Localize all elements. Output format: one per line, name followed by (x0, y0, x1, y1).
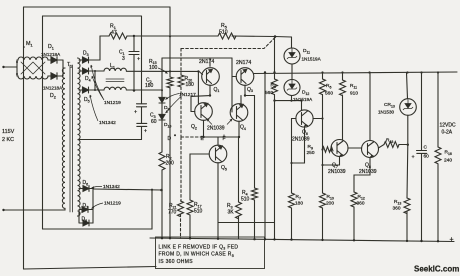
wire bottom outer rail (24, 267, 157, 270)
column D9 D10 R2 (161, 58, 163, 238)
wire Q8 collector up to rail (369, 72, 371, 140)
svg-text:IS 360 OHMS: IS 360 OHMS (159, 259, 194, 265)
transformer T1 secondary winding (78, 58, 81, 216)
wire R11 bottom to Q7 collector (342, 95, 344, 140)
wire Q8 right to R18 (378, 145, 384, 149)
svg-text:1N1519A: 1N1519A (293, 97, 313, 102)
svg-text:2N1039: 2N1039 (359, 169, 377, 175)
transistor Q8 2N1039 (362, 141, 379, 158)
svg-text:47: 47 (111, 30, 117, 36)
svg-text:2N174: 2N174 (199, 59, 214, 65)
svg-text:2N174: 2N174 (236, 60, 251, 66)
svg-text:910: 910 (350, 91, 358, 97)
diode D3 tap (79, 57, 100, 63)
collector rail of Q1 Q3 (162, 57, 232, 59)
wire R9 to Q7 base (331, 149, 332, 151)
diode D2 (48, 73, 63, 79)
wire Q1 emitter node left and down to Q2 base (191, 96, 210, 112)
svg-text:2N1039: 2N1039 (207, 126, 225, 132)
transformer T1 core (70, 65, 73, 212)
svg-text:360: 360 (357, 201, 365, 207)
svg-text:0-2A: 0-2A (442, 130, 453, 136)
transistor Q1 2N174 (202, 68, 220, 86)
dashed link column D with R21 (181, 49, 204, 239)
svg-text:3: 3 (122, 56, 125, 62)
svg-text:1N1219: 1N1219 (104, 201, 121, 207)
wire base line down to Q2 top (197, 71, 199, 103)
zener diode D12 in circle (284, 80, 300, 96)
dashed feedback line top (181, 38, 275, 49)
svg-text:2N1039: 2N1039 (292, 137, 310, 143)
zener diode D11 in circle (284, 48, 300, 64)
capacitor C1 column (129, 36, 139, 91)
wire R5 to node (232, 36, 292, 37)
resistor R18 (384, 142, 399, 148)
wire L1 upper output to Q1 base (126, 71, 202, 74)
wire D6 output to R2 column (93, 189, 162, 190)
wire tying D4 D5 outputs (94, 71, 96, 90)
resistor R2 (159, 152, 165, 170)
svg-text:1N1342: 1N1342 (99, 120, 116, 126)
svg-text:+: + (137, 57, 140, 63)
wire Q3 emitter down (244, 85, 246, 95)
svg-text:250: 250 (307, 150, 315, 156)
note box (156, 237, 265, 269)
resistor R12 (351, 192, 357, 207)
svg-text:+: + (144, 128, 147, 134)
svg-text:180: 180 (186, 82, 195, 88)
transistor Q7 2N1039 (331, 140, 348, 157)
svg-text:+: + (450, 237, 454, 244)
svg-text:SeekIC.com: SeekIC.com (414, 265, 459, 274)
column R8 (274, 37, 276, 79)
link line D E F (204, 136, 239, 138)
diode D5 tap (79, 87, 104, 93)
svg-text:180: 180 (145, 83, 154, 89)
svg-text:100: 100 (149, 65, 158, 71)
svg-text:560: 560 (265, 90, 273, 96)
svg-text:510: 510 (194, 209, 203, 215)
wire Q1 collector stub (209, 58, 211, 66)
wire D3 output up to main rail (99, 36, 101, 60)
transformer T1 primary winding (62, 68, 65, 210)
bottom rectifier D7 (79, 207, 93, 213)
column R15 from rail1 (169, 7, 171, 77)
wire Q6 collector to R6 (313, 118, 322, 120)
resistor R8 (272, 79, 278, 95)
resistor R10 (320, 193, 326, 208)
zener diode CR13 in circle (400, 99, 417, 116)
svg-text:LINK E F REMOVED IF Q3 FED: LINK E F REMOVED IF Q3 FED (159, 244, 239, 250)
resistor R20 on dashed column (178, 75, 184, 87)
svg-text:2N1039: 2N1039 (328, 169, 346, 175)
transistor Q2 2N1039 (195, 103, 213, 121)
bottom rail node dots (161, 134, 439, 242)
wire Q1 emitter down (209, 85, 211, 95)
transistor Q4 2N1039 (230, 104, 248, 122)
loop box around bottom rectifiers (43, 190, 153, 229)
column C output cap (417, 72, 427, 241)
svg-text:200: 200 (326, 201, 334, 207)
resistor R13 (404, 198, 410, 214)
wire main positive rail with R1 R5 (100, 35, 109, 37)
svg-text:C: C (424, 145, 428, 151)
resistor R15 (167, 77, 173, 88)
svg-text:1N1218A: 1N1218A (41, 52, 61, 57)
long column x265 to bottom rail (264, 73, 266, 240)
column D11 D12 (291, 37, 294, 80)
bottom rectifier D6 (79, 186, 93, 192)
svg-text:+: + (134, 110, 137, 116)
transistor Q6 2N1039 (296, 110, 313, 127)
wire R6 top to rail (322, 73, 324, 194)
wire Q3 node to R4 column (245, 96, 255, 189)
resistor R7 (289, 193, 295, 208)
wire tying D6 D7 D8 (92, 189, 94, 224)
svg-text:770: 770 (168, 210, 177, 216)
wire Q3 node to Q4 top (240, 96, 242, 105)
bottom rectifier D8 (79, 212, 93, 226)
svg-text:180: 180 (295, 201, 303, 207)
wire Q7 Q8 link (348, 147, 362, 149)
resistor R5 (218, 33, 236, 39)
capacitor C2 C3 column (137, 16, 147, 140)
column R16 (437, 72, 439, 147)
transistor Q3 2N174 (236, 68, 254, 86)
transistor Q5 (209, 145, 227, 163)
R3 column (238, 216, 240, 239)
wire Q4 down to link line and R3 (238, 121, 241, 202)
reactor M1 winding top row (17, 57, 50, 60)
resistor R9 (323, 147, 334, 153)
diode D1 (48, 57, 63, 63)
wire top feedback rail 1 (24, 6, 171, 8)
svg-text:1N1219: 1N1219 (104, 100, 121, 106)
wire left vertical from rail1 down left side (23, 7, 25, 269)
resistor R16 (435, 147, 441, 164)
reactor M1 cross marks (21, 62, 45, 74)
inductor L1 upper winding (104, 68, 126, 71)
link ticks E F (204, 135, 225, 137)
svg-text:510: 510 (219, 30, 228, 36)
wire bottom mid connector (218, 222, 275, 224)
svg-text:560: 560 (325, 91, 333, 97)
column CR13 (407, 73, 408, 199)
wire top feedback rail 2 (43, 15, 142, 17)
resistor R11 (340, 80, 346, 96)
resistor R4 (252, 188, 258, 200)
resistor R21 (178, 201, 184, 217)
svg-text:1N1530: 1N1530 (378, 110, 395, 115)
wire Q2 to link node E (203, 120, 205, 137)
svg-text:2 KC: 2 KC (2, 137, 14, 143)
resistor R17 (187, 200, 193, 215)
svg-text:510: 510 (241, 197, 250, 203)
wire Q5 emitter to bottom rail (217, 163, 219, 239)
svg-text:200: 200 (166, 161, 175, 167)
main mid rail from Q3 collector (254, 72, 457, 74)
wire R8 bottom joining D12 column (275, 95, 302, 240)
wire R15 bottom to link line (169, 88, 171, 238)
wire Q6 emitter down to R9 (292, 127, 305, 163)
diode D9 (159, 97, 165, 103)
reactor M1 winding bottom row (17, 76, 50, 79)
wire Q5 top stub (217, 137, 219, 145)
wire Q8 emitter to R12 column (354, 158, 370, 193)
svg-text:FROM D, IN WHICH CASE R5: FROM D, IN WHICH CASE R5 (159, 252, 235, 258)
wire D12 bottom to Q6 base (292, 118, 297, 120)
svg-text:12VDC: 12VDC (440, 123, 457, 129)
diode D4 tap (79, 68, 104, 74)
svg-text:1N1519A: 1N1519A (302, 57, 322, 62)
inductor L1 core (106, 79, 124, 82)
resistor R1 (109, 33, 127, 39)
svg-text:F: F (223, 136, 226, 142)
wire rail corner down to Q3 base and Q4 (231, 58, 233, 112)
wire joining D1 D2 to T1 primary (63, 60, 65, 76)
bottom main rail (150, 238, 454, 242)
resistor R3 (236, 202, 242, 219)
wire L1 lower output (126, 89, 162, 91)
wire T1 secondary center tap (79, 139, 142, 141)
svg-text:D: D (168, 136, 172, 142)
svg-text:115V: 115V (2, 129, 15, 135)
svg-text:60: 60 (424, 154, 430, 160)
wire rail R1 to R5 (127, 35, 218, 37)
wire Q5 base to R17 column (190, 154, 209, 200)
wire Q3 base (232, 76, 236, 78)
svg-text:1N1342: 1N1342 (103, 184, 120, 190)
svg-text:1N1218A: 1N1218A (43, 85, 63, 90)
svg-text:1N1217: 1N1217 (179, 92, 196, 98)
wire R18 to CR13 column (399, 144, 408, 146)
svg-text:+: + (412, 155, 415, 161)
node dots upper area (2, 35, 439, 211)
wire second left vertical (42, 16, 44, 229)
diode D10 (159, 114, 165, 120)
svg-text:3K: 3K (228, 210, 235, 216)
wire input top lead (3, 60, 17, 76)
column R11 to Q7 (342, 73, 344, 81)
resistor R6 (320, 79, 326, 95)
svg-text:60: 60 (151, 119, 157, 125)
wire Q7 emitter to R10 column (323, 156, 340, 165)
column D12 down through R7 (291, 96, 293, 194)
svg-text:240: 240 (444, 158, 452, 164)
inductor L1 lower winding (104, 87, 126, 90)
wire input bottom lead (3, 209, 65, 211)
svg-text:360: 360 (393, 206, 401, 212)
